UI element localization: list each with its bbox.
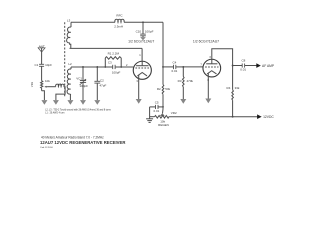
capacitor C3 100pF inline — [113, 65, 115, 69]
wire tank top rail — [71, 66, 113, 68]
ground below C10 — [140, 36, 146, 41]
svg-text:47pF: 47pF — [100, 83, 107, 87]
wire to tube 2 grid — [183, 66, 203, 68]
core coupling dashed line — [64, 22, 66, 96]
ground below VC1 — [80, 100, 86, 105]
potentiometer VR2 10k REGEN — [150, 116, 169, 119]
svg-text:VR1: VR1 — [30, 81, 34, 87]
wire plate loop bottom — [70, 47, 143, 49]
wire C4 rail — [163, 66, 174, 68]
antenna ANT — [38, 48, 45, 64]
resistor R4 33k — [232, 66, 234, 117]
inductor RFC 2.5mH — [115, 19, 124, 22]
svg-text:C1: C1 — [34, 63, 38, 67]
node C10 junction on top rail — [142, 21, 144, 23]
ground 3-bar below C5/VR2 left — [146, 119, 153, 123]
wire tube 2 plate to top — [212, 49, 233, 66]
svg-text:L2: L2 — [68, 62, 72, 66]
resistor R1 2.2M grid leak — [105, 57, 121, 67]
capacitor C8 0.01 output — [242, 64, 244, 68]
capacitor C5 0.01 — [150, 105, 163, 119]
svg-text:1/2 6CG7/12AU7: 1/2 6CG7/12AU7 — [193, 40, 219, 44]
svg-text:L1: L1 — [58, 82, 62, 86]
svg-text:100pF: 100pF — [145, 30, 154, 34]
svg-text:VR2: VR2 — [171, 111, 177, 115]
ground below tube 2 cathode — [205, 99, 211, 104]
capacitor C4 0.01 coupling — [174, 65, 176, 69]
ground below C2 — [94, 100, 100, 105]
node R4 to bus — [232, 116, 234, 118]
svg-text:R1 2.2M: R1 2.2M — [108, 51, 120, 55]
ground below L1 — [53, 100, 59, 105]
variable capacitor VC1 100pF — [80, 67, 87, 100]
resistor R2 50k — [162, 67, 164, 109]
svg-text:12VDC: 12VDC — [263, 115, 274, 119]
ground below VR1 — [41, 100, 47, 105]
svg-text:R2: R2 — [157, 87, 161, 91]
inductor L1 antenna link — [56, 84, 66, 100]
inductor L2 tank coil — [67, 67, 71, 100]
wire VR1 wiper to L1 — [48, 86, 56, 88]
svg-text:2.5mH: 2.5mH — [114, 24, 123, 28]
svg-text:AF AMP: AF AMP — [262, 64, 275, 68]
svg-text:L3: L3 — [67, 18, 71, 22]
svg-text:C5: C5 — [155, 101, 159, 105]
wire 12VDC bus — [169, 116, 258, 118]
svg-text:Feb 13 2010: Feb 13 2010 — [41, 147, 54, 149]
wire top rail left of RFC — [71, 21, 115, 23]
svg-text:12AU7 12VDC REGENERATIVE RECEI: 12AU7 12VDC REGENERATIVE RECEIVER — [40, 140, 125, 145]
capacitor C2 47pF — [94, 67, 100, 100]
node C2 top — [96, 66, 98, 68]
svg-text:R4: R4 — [227, 86, 231, 90]
node C8 junction — [232, 65, 234, 67]
svg-text:L1 : 20 AWG 4 turn: L1 : 20 AWG 4 turn — [45, 111, 65, 114]
svg-text:L2, L3 : T50-2 Toroid wound wi: L2, L3 : T50-2 Toroid wound with 28 AWG … — [45, 109, 111, 112]
wire C8 rail — [233, 65, 243, 67]
resistor R3 470k — [183, 67, 185, 99]
svg-text:0.01: 0.01 — [171, 69, 177, 73]
wiper of VR2 from R2 — [160, 109, 165, 116]
svg-text:0.01: 0.01 — [240, 67, 246, 71]
svg-text:R3: R3 — [178, 79, 182, 83]
svg-text:VC1: VC1 — [76, 76, 82, 80]
ground below R3 — [180, 99, 186, 104]
node plate junction C4/R2 — [162, 66, 164, 68]
arrow 12VDC supply — [257, 114, 262, 119]
capacitor C1 10pF — [39, 64, 44, 80]
capacitor C10 branch — [140, 22, 146, 36]
node VC1 top — [82, 66, 84, 68]
ground below L2 — [67, 100, 73, 105]
svg-text:RFC: RFC — [116, 13, 123, 17]
svg-text:C8: C8 — [241, 59, 245, 63]
arrow AF AMP output — [256, 63, 261, 68]
svg-text:ANT: ANT — [39, 44, 45, 48]
svg-text:50k: 50k — [165, 87, 170, 91]
triode U1b tube 2 — [203, 59, 221, 98]
svg-text:470k: 470k — [187, 79, 194, 83]
svg-text:C2: C2 — [100, 79, 104, 83]
wire right vertical from top rail to plate node — [162, 22, 164, 67]
node R3 junction — [182, 66, 184, 68]
node R1 right stub — [120, 66, 122, 68]
svg-text:0.01: 0.01 — [153, 109, 159, 113]
node C5 junction — [162, 106, 164, 108]
svg-text:10k: 10k — [45, 79, 50, 83]
wire top rail right of RFC — [124, 21, 163, 23]
svg-text:1/2 6CG7/12AU7: 1/2 6CG7/12AU7 — [128, 40, 154, 44]
triode U1a tube 1 — [133, 48, 151, 99]
svg-text:10pF: 10pF — [45, 63, 52, 67]
svg-text:C10: C10 — [136, 30, 142, 34]
ground below tube 1 cathode — [136, 99, 142, 104]
svg-text:33k: 33k — [235, 86, 240, 90]
svg-text:100pF: 100pF — [80, 84, 89, 88]
potentiometer VR1 10k — [41, 81, 48, 100]
svg-text:C4: C4 — [172, 61, 176, 65]
svg-text:C3: C3 — [108, 61, 112, 65]
svg-text:100pF: 100pF — [112, 70, 121, 74]
svg-text:REGEN: REGEN — [158, 123, 169, 127]
inductor L3 tickler — [67, 22, 71, 48]
node R1 left stub — [104, 66, 106, 68]
